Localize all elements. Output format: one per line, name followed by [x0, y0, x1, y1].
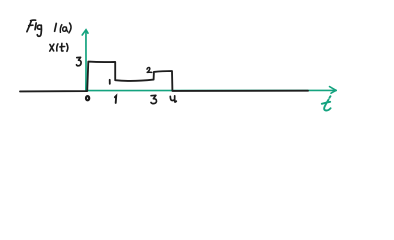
title digit 1 (slash stroke): [55, 23, 57, 31]
label x(t): [50, 43, 68, 51]
level label 1 (small stroke): [109, 80, 111, 84]
tick label 1: [115, 96, 116, 103]
axis label t (script): [322, 96, 331, 110]
signal x(t): step waveform 3 on [0,1], 1 on [1,3], 2 on [3,4]: [20, 62, 308, 92]
level label 2: [147, 68, 152, 73]
tick label 4: [170, 96, 176, 102]
tick label 3: [151, 95, 157, 103]
x-axis (teal horizontal arrow): [86, 87, 336, 94]
tick label 0: [86, 96, 89, 100]
title Fig: [27, 20, 42, 36]
title (a): [60, 23, 71, 33]
y-axis (teal vertical arrow): [82, 30, 88, 91]
y value label 3: [77, 57, 82, 66]
